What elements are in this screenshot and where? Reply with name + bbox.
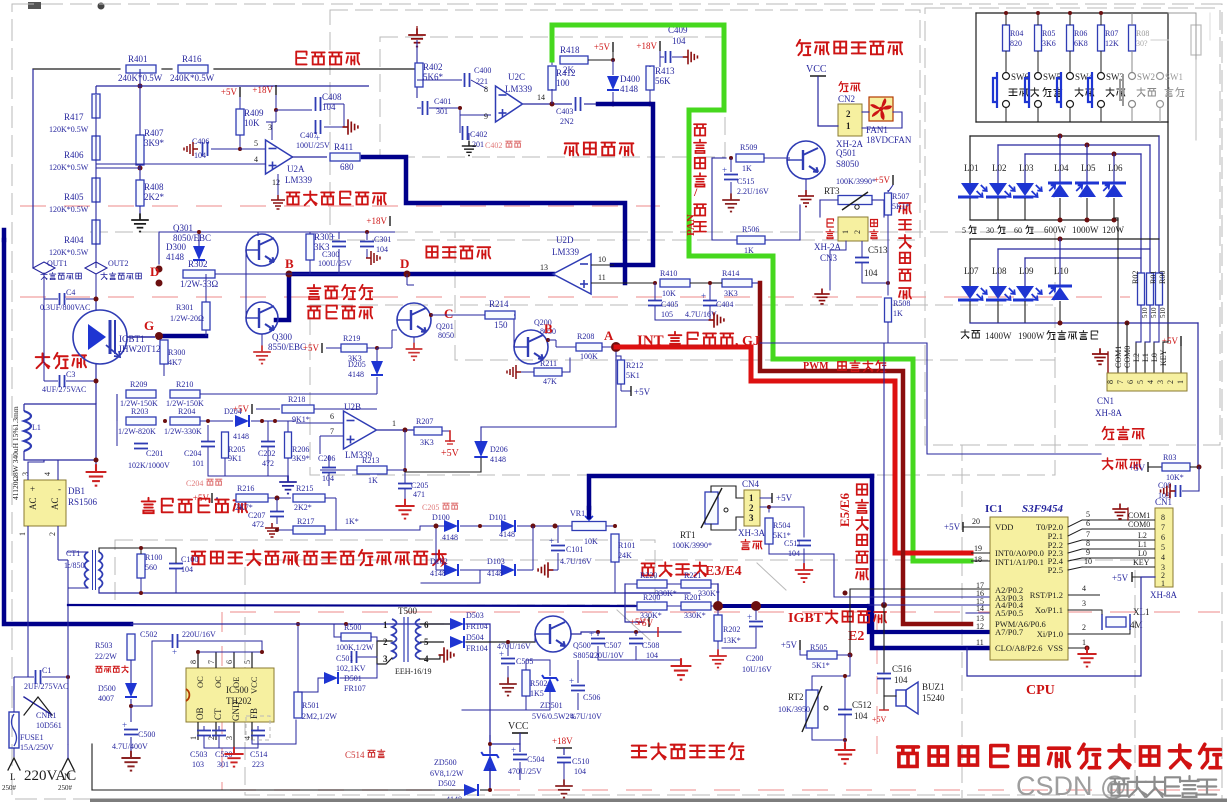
svg-text:100: 100 [556,78,570,88]
svg-text:A: A [604,328,614,343]
svg-text:R408: R408 [144,182,164,192]
svg-text:2: 2 [749,503,754,513]
wire fb loop [252,720,296,744]
svg-text:2N2: 2N2 [560,117,574,126]
svg-text:CT1: CT1 [66,549,80,558]
svg-text:C405: C405 [661,300,678,309]
capacitor C00 [1175,485,1177,497]
svg-text:R100: R100 [145,553,162,562]
svg-text:510: 510 [1141,307,1149,318]
capacitor C502 [172,634,174,648]
resistor R218 [282,405,314,413]
label 面板 [741,540,750,550]
switch SW3 [1098,73,1105,80]
svg-text:L1: L1 [1138,540,1147,549]
svg-text:KEY: KEY [1159,349,1168,366]
svg-text:4148: 4148 [442,533,458,542]
svg-text:LM339: LM339 [505,84,533,94]
wire 300 row [305,231,395,233]
svg-text:8550/EBC: 8550/EBC [268,342,306,352]
svg-text:1/2W-330K: 1/2W-330K [164,427,202,436]
svg-text:CN4: CN4 [742,479,760,489]
svg-text:240K*0.5W: 240K*0.5W [170,73,215,83]
diode D504 [450,636,464,648]
svg-text:D205: D205 [348,360,366,369]
pot VR1 [572,522,606,531]
svg-text:CPU: CPU [1026,683,1055,698]
wire p2 pins [1068,520,1082,527]
svg-text:R507: R507 [892,192,909,201]
wire d502 left [92,789,446,791]
svg-text:OC: OC [195,676,205,688]
svg-text:5K1*: 5K1* [812,661,830,670]
label 主控板 [1102,458,1112,469]
label 同步电路 [296,52,306,65]
svg-text:L01: L01 [964,163,979,173]
power +5V r216 [211,493,213,503]
transformer T500 [392,619,397,659]
wire r217-row [420,526,436,530]
ground c205 [395,499,414,519]
resistor R411 [330,153,360,161]
resistor R414 [722,279,752,287]
wire c513 junction [862,282,888,284]
capacitor C503 [197,730,211,732]
svg-text:RT3: RT3 [824,186,840,196]
resistor R303 [306,234,314,260]
svg-text:1: 1 [392,419,396,428]
wire q201 col [406,274,408,285]
zener ZD501 [542,675,558,692]
svg-text:L1: L1 [1141,353,1150,362]
svg-text:6K8: 6K8 [1074,39,1088,48]
svg-text:7: 7 [1161,523,1165,532]
label 电流检测电路 [192,552,206,565]
svg-text:56K: 56K [655,76,671,86]
wire rt3 loop [820,199,838,201]
svg-text:104: 104 [574,767,586,776]
wire rt1 loop [711,486,744,498]
svg-text:2: 2 [383,637,388,647]
wire osc left [369,68,417,70]
resistor R416 [178,65,208,73]
power +18V opamp [275,85,277,95]
svg-text:FR104: FR104 [466,644,488,653]
svg-text:R215: R215 [296,484,313,493]
block border osc [380,37,725,157]
svg-text:R218: R218 [288,395,305,404]
svg-text:150: 150 [494,320,508,330]
svg-text:+5V: +5V [303,343,320,353]
node G [155,332,163,340]
svg-text:104: 104 [894,675,908,685]
svg-text:4UF/275VAC: 4UF/275VAC [42,385,86,394]
wire cn3 gnd [830,241,846,250]
resistor R217 [293,526,325,534]
wire r407-408 [139,86,141,135]
capacitor C204 [201,441,215,443]
svg-text:1: 1 [1161,579,1165,588]
svg-text:+: + [330,232,335,242]
wire com1 up [1114,217,1118,219]
svg-text:C204: C204 [186,479,203,488]
svg-text:DB1: DB1 [68,486,85,496]
svg-text:120K*0.5W: 120K*0.5W [49,125,89,134]
terminal OUT2 [85,262,107,274]
keys top bus [976,12,1168,14]
svg-text:C506: C506 [583,693,600,702]
svg-text:R07: R07 [1105,29,1118,38]
svg-text:C504: C504 [527,755,544,764]
op-amp U2D [553,254,591,294]
LED L04 [1048,183,1072,197]
svg-text:1/2W-20Ω: 1/2W-20Ω [170,314,204,323]
svg-text:18VDCFAN: 18VDCFAN [866,135,912,145]
svg-text:D: D [150,264,159,279]
led bus1 row1 [970,135,1159,137]
svg-text:9K1: 9K1 [228,454,242,463]
svg-text:VCC: VCC [806,64,827,75]
svg-text:CN1: CN1 [1097,396,1114,406]
resistor R05 [1035,25,1042,51]
ground surge [208,475,288,477]
svg-text:+5V: +5V [233,404,250,414]
svg-text:U2C: U2C [508,72,525,82]
resistor R101 [611,534,619,562]
svg-text:R505: R505 [810,643,827,652]
svg-text:E5/E6: E5/E6 [837,493,852,527]
ground c500 [121,751,140,771]
svg-text:+18V: +18V [252,85,273,95]
svg-text:(: ( [295,552,300,568]
label 上电延时 [308,285,321,299]
wire r412 [551,60,553,65]
svg-text:R509: R509 [740,143,757,152]
svg-text:9: 9 [484,112,488,121]
connector CN3 [838,217,868,241]
svg-text:/: / [693,185,698,199]
svg-text:R409: R409 [244,108,264,118]
svg-text:10D561: 10D561 [36,721,62,730]
svg-text:10K: 10K [662,289,676,298]
svg-text:2: 2 [207,736,216,740]
IC500 pin lines top [197,652,199,668]
terminal N [62,758,74,770]
svg-text:C404: C404 [716,300,733,309]
resistor R406 [92,136,100,160]
label 线盘测温电路 [899,203,911,214]
resistor R407 [136,135,144,165]
svg-text:+5V: +5V [441,448,460,459]
svg-text:R209: R209 [130,380,147,389]
wire ct1 sec bot [99,588,655,593]
capacitor C4 [59,293,61,305]
fan icon FAN1 [869,97,893,121]
capacitor C300 [332,241,346,243]
svg-text:R201: R201 [684,593,701,602]
wire a2 line [850,589,990,655]
svg-text:3K3: 3K3 [420,438,434,447]
label 驱动电路 [426,246,437,257]
svg-text:+: + [122,720,127,730]
svg-text:C403: C403 [556,107,573,116]
svg-text:2.2U/16V: 2.2U/16V [737,187,769,196]
wire bus thin 593 [655,592,690,594]
svg-text:C202: C202 [258,449,275,458]
resistor R04 [1003,25,1010,51]
svg-text:C406: C406 [192,137,209,146]
resistor R505 [807,651,837,659]
block border mainboard [961,445,963,798]
bus R411 to U2D pin11 [363,157,625,283]
resistor R01 [1147,273,1154,305]
LED L09 [1013,286,1042,300]
label 保护电路 [308,306,321,318]
wire G col [158,283,160,336]
svg-text:T500: T500 [398,606,417,616]
svg-text:C402: C402 [470,130,487,139]
wire d504 out [466,641,535,643]
wire igbt emitter [99,364,101,460]
power +5V r207 [442,430,450,432]
resistor R503 [127,634,135,660]
svg-text:15240: 15240 [922,693,945,703]
svg-text:C503: C503 [190,750,207,759]
svg-text:250#: 250# [2,784,17,792]
svg-text:1K: 1K [742,164,752,173]
svg-text:600W: 600W [1044,225,1067,235]
svg-text:PAN: PAN [685,214,697,236]
svg-text:100K/3990*: 100K/3990* [672,541,712,550]
svg-text:+5V: +5V [634,387,651,397]
wire a-r212 [616,352,621,360]
svg-text:10: 10 [598,255,606,264]
svg-text:PWM: PWM [803,361,829,372]
diagonal dash 2 [617,610,650,640]
svg-text:1: 1 [189,736,198,740]
diode D103 [501,564,515,576]
svg-text:1: 1 [1176,380,1185,384]
svg-text:1: 1 [18,532,27,536]
wire q501 base [787,159,790,161]
svg-text:104: 104 [672,36,686,46]
svg-text:CLO/A8/P2.6: CLO/A8/P2.6 [995,643,1042,653]
svg-text:6: 6 [424,620,429,630]
svg-text:D500: D500 [98,684,116,693]
svg-text:102K/1000V: 102K/1000V [128,461,170,470]
svg-text:L2: L2 [1138,531,1147,540]
svg-text:CN2: CN2 [838,94,855,104]
wire psu top rail [131,623,462,625]
connector CN1 bottom [1155,508,1173,587]
wire d100 col [436,525,444,527]
svg-text:470U/25V: 470U/25V [508,767,542,776]
svg-text:IC1: IC1 [985,503,1003,515]
svg-text:VCC: VCC [508,721,529,732]
resistor R409 [236,109,244,135]
svg-text:S8050: S8050 [836,159,860,169]
resistor R02 [1138,273,1145,305]
svg-text:R212: R212 [626,361,643,370]
svg-text:11: 11 [976,638,984,647]
svg-text:4148: 4148 [499,530,515,539]
resistor R202 [714,615,722,641]
svg-text:4: 4 [1161,553,1165,562]
wire q501 col down [805,179,807,192]
svg-text:510: 510 [1150,307,1158,318]
transistor Q501 [787,141,825,179]
svg-text:OUT1: OUT1 [47,259,67,268]
diode D503 [450,618,464,630]
svg-text:1/2W-820K: 1/2W-820K [118,427,156,436]
svg-text:120K*0.5W: 120K*0.5W [49,163,89,172]
capacitor C403 [575,97,577,111]
svg-text:D400: D400 [620,74,640,84]
svg-text:8: 8 [1161,513,1165,522]
op-amp U2B [344,411,377,449]
svg-text:2UF/275VAC: 2UF/275VAC [24,682,68,691]
op-amp U2C [496,86,523,122]
capacitor C400 [464,73,466,87]
crystal XL1 [1106,617,1126,627]
svg-text:2K2*: 2K2* [294,503,312,512]
svg-text:4.7U/16V: 4.7U/16V [685,310,717,319]
svg-text:INT1/A1/P0.1: INT1/A1/P0.1 [995,557,1044,567]
wire u2b fb [404,430,406,472]
svg-text:L09: L09 [1019,266,1034,276]
capacitor C405 [648,300,662,302]
svg-text:2K: 2K [563,65,575,75]
capacitor C409 [665,51,667,63]
svg-text:C207: C207 [248,511,265,520]
resistor R404 [92,220,100,244]
svg-text:G: G [144,318,154,333]
svg-text:C514: C514 [250,750,267,759]
svg-text:220U/16V: 220U/16V [182,630,216,639]
label B2 node [546,338,550,342]
svg-text:FUSE1: FUSE1 [20,733,44,742]
wire u2a out [292,156,327,158]
svg-text:Q201: Q201 [436,322,454,331]
svg-text:L02: L02 [992,163,1007,173]
wire igbt top [95,299,97,310]
power +5V r219 [321,343,323,353]
svg-text:R501: R501 [302,701,319,710]
title 电磁炉各信号分布流程图 [898,747,919,767]
wire com buses [1117,218,1119,373]
capacitor C101 [551,545,565,547]
svg-text:R207: R207 [416,417,433,426]
transistor Q200 [514,330,548,364]
svg-text:C511: C511 [784,539,801,548]
transistor Q201 [397,303,431,337]
svg-text:LM339: LM339 [285,175,313,185]
wire sync top [33,68,120,70]
svg-text:C507: C507 [604,641,621,650]
svg-text:+5V: +5V [781,640,798,650]
power +5V r212 [621,390,631,392]
svg-text:103: 103 [192,760,204,769]
svg-text:AC: AC [28,497,38,510]
terminal L [8,758,20,770]
svg-text:+5V: +5V [193,493,210,503]
resistor R417 [92,94,100,118]
capacitor C516 [877,673,891,675]
svg-text:L05: L05 [1081,163,1096,173]
svg-text:100U/25V: 100U/25V [296,141,330,150]
svg-text:104: 104 [376,245,388,254]
power +5V osc [612,42,614,52]
svg-text:Q501: Q501 [836,148,856,158]
svg-text:INT: INT [637,333,664,349]
svg-text:1: 1 [383,620,388,630]
resistor R210 [170,390,200,398]
svg-text:4.7U/10V: 4.7U/10V [570,712,602,721]
svg-text:L07: L07 [964,266,979,276]
svg-text:+: + [172,647,177,657]
svg-text:2: 2 [48,532,57,536]
svg-text:22/2W: 22/2W [95,652,117,661]
switch SW5 [1035,73,1042,80]
ground cn1 bottom [1112,504,1127,519]
wire q500 base [534,634,536,642]
svg-text:Xi/P1.0: Xi/P1.0 [1037,629,1063,639]
wire cn4 pin2 [760,507,769,512]
diode D206 [474,441,488,457]
diode D101 [501,520,515,532]
IC500 pin lines bottom [197,722,199,740]
svg-text:L0: L0 [1138,549,1147,558]
IC IC1 box [990,517,1068,660]
capacitor C202 [261,441,275,443]
node D dots [156,266,163,273]
svg-text:E3/E4: E3/E4 [705,564,742,579]
wire vr1 right [606,525,615,527]
node volt [717,584,719,606]
svg-text:XH-3A: XH-3A [738,528,765,538]
svg-text:1K: 1K [893,309,903,318]
wire sync bus2 [96,85,369,87]
resistor R507 [885,193,892,215]
svg-text:R506: R506 [742,225,759,234]
svg-text:R411: R411 [334,142,353,152]
resistor R00 [1156,273,1163,305]
svg-text:3: 3 [1156,380,1165,384]
resistor R204 [170,417,200,425]
svg-text:+5V: +5V [1162,336,1179,346]
svg-text:C402: C402 [485,141,502,150]
svg-text:C: C [444,306,453,321]
svg-text:6V8,1/2W: 6V8,1/2W [430,769,464,778]
svg-text:1: 1 [841,230,850,234]
svg-text:120K*0.5W: 120K*0.5W [49,205,89,214]
svg-text:1K: 1K [368,476,378,485]
svg-text:L0: L0 [1150,353,1159,362]
wire q200 base [513,330,515,347]
wire d501 left [221,677,324,679]
LED L08 [986,286,1015,300]
svg-text:R220: R220 [640,571,657,580]
svg-text:5: 5 [243,660,252,664]
svg-text:+: + [30,484,35,494]
svg-text:D502: D502 [438,779,456,788]
svg-text:R213: R213 [362,456,379,465]
power +18V c301 [389,216,391,226]
faded corner lines [1151,39,1168,41]
block border powerdelay [455,232,1055,360]
transformer CT1 [85,552,89,588]
svg-text:R03: R03 [1163,453,1176,462]
